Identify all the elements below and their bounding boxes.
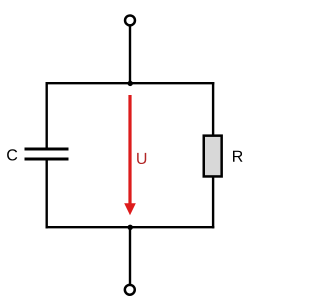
label U (137, 153, 146, 164)
wire node B to bottom terminal (129, 227, 131, 284)
label C (7, 149, 17, 160)
capacitor C1 plates (25, 149, 69, 159)
node B (bottom junction) (128, 225, 133, 230)
wire top rail (46, 82, 215, 84)
terminal T1 (top) (125, 15, 135, 25)
node A (top junction) (128, 81, 133, 86)
voltage arrow U (124, 95, 136, 215)
wire left rail lower (46, 159, 48, 228)
wire top terminal to node A (129, 26, 131, 85)
wire left rail upper (46, 82, 48, 149)
terminal T2 (bottom) (125, 285, 135, 295)
wire right rail upper (212, 82, 214, 136)
wire bottom rail (46, 226, 215, 228)
resistor R1 body (204, 136, 222, 177)
wire right rail lower (212, 177, 214, 229)
label R (233, 151, 243, 162)
